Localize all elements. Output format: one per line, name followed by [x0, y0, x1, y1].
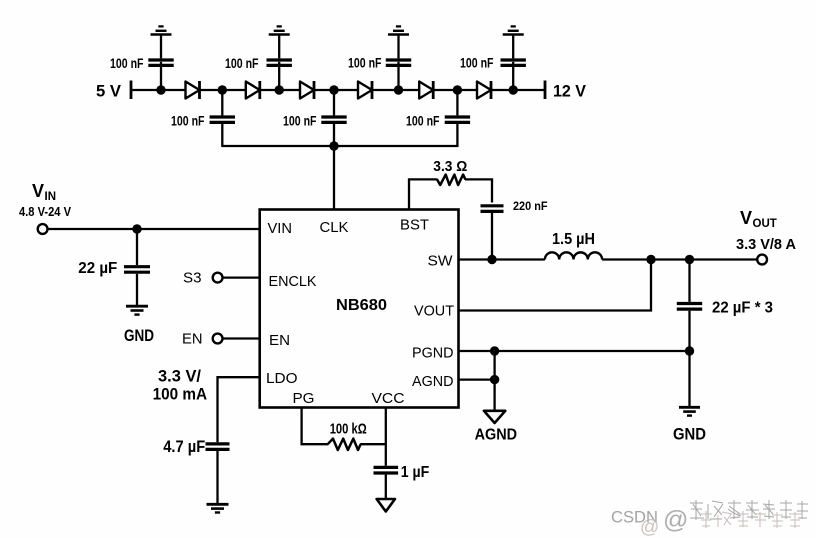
label C3 100 nF — [348, 56, 382, 71]
wire CLK pin — [333, 146, 335, 210]
svg-text:22 µF: 22 µF — [78, 260, 117, 277]
label AGND — [475, 426, 517, 443]
terminal 12V tick — [544, 81, 547, 100]
pin label BST — [400, 217, 429, 234]
label EN net — [182, 330, 203, 347]
label 22 uF * 3 — [712, 300, 773, 317]
wire PGND pin — [459, 350, 690, 352]
svg-text:1 µF: 1 µF — [401, 464, 430, 481]
svg-text:GND: GND — [124, 326, 154, 345]
wire EN pin — [223, 337, 260, 339]
label NB680 — [336, 297, 387, 314]
label 1.5 uH — [552, 231, 595, 248]
ground input cap — [126, 306, 148, 314]
svg-text:100 nF: 100 nF — [283, 113, 317, 128]
watermark glyphs row2 — [700, 511, 801, 528]
ground flipped C1 — [151, 26, 172, 34]
ground flipped C4 — [503, 26, 524, 34]
svg-text:PGND: PGND — [412, 345, 454, 362]
node J5 — [394, 85, 403, 94]
svg-text:CLK: CLK — [320, 219, 349, 236]
svg-text:S3: S3 — [183, 269, 202, 286]
resistor 100k — [328, 439, 361, 450]
svg-text:3.3 Ω: 3.3 Ω — [433, 159, 467, 175]
svg-text:VOUT: VOUT — [414, 303, 454, 320]
label 12 V — [553, 82, 587, 101]
diode D3 — [300, 81, 314, 99]
wire AGND pin — [459, 378, 495, 380]
node J7 — [509, 85, 518, 94]
svg-text:1.5 µH: 1.5 µH — [552, 231, 595, 248]
node output cap bottom — [685, 346, 694, 355]
node SW BST — [487, 255, 496, 264]
resistor 3.3 ohm — [437, 175, 465, 185]
label C1 100 nF — [110, 56, 144, 71]
label GND right — [673, 425, 706, 444]
capacitor C7 100nF bottom — [445, 90, 470, 147]
label 1 uF — [401, 464, 430, 481]
svg-text:@: @ — [663, 506, 688, 534]
label 3.3 ohm — [433, 159, 467, 175]
svg-text:100 nF: 100 nF — [460, 56, 494, 71]
label VIN net — [32, 181, 56, 203]
ground flipped C2 — [269, 26, 290, 34]
label S3 — [183, 269, 202, 286]
ground output — [679, 407, 700, 415]
ground VCC triangle — [377, 499, 395, 512]
node J4 — [329, 85, 338, 94]
svg-text:V: V — [32, 181, 44, 201]
label 3.3 V-8 A — [736, 236, 796, 253]
label C2 100 nF — [225, 56, 259, 71]
pin label AGND — [412, 373, 454, 390]
node rail CLK — [329, 141, 338, 150]
wire bottom rail — [222, 145, 457, 147]
diode D4 — [358, 81, 372, 99]
label 3.3V 100mA — [153, 366, 208, 403]
terminal S3 circle — [213, 273, 223, 283]
pin label LDO — [266, 370, 298, 387]
label 5 V — [96, 82, 122, 101]
wire output cap to ground — [688, 351, 690, 406]
node VOUT fb — [646, 255, 655, 264]
svg-text:BST: BST — [400, 217, 429, 234]
ground flipped C3 — [388, 26, 409, 34]
node J6 — [453, 85, 462, 94]
capacitor C2 100nF top — [267, 35, 292, 91]
svg-text:ENCLK: ENCLK — [269, 273, 317, 290]
node output cap top — [685, 255, 694, 264]
svg-text:IN: IN — [45, 191, 57, 203]
svg-text:100 mA: 100 mA — [153, 385, 208, 404]
pin label VOUT — [414, 303, 454, 320]
pin label EN — [269, 332, 290, 349]
svg-text:V: V — [740, 208, 752, 228]
svg-text:AGND: AGND — [475, 426, 517, 443]
svg-text:NB680: NB680 — [336, 297, 387, 314]
pin label PGND — [412, 345, 454, 362]
ground AGND triangle — [484, 411, 505, 423]
label C5 100 nF — [171, 113, 205, 128]
svg-text:VIN: VIN — [268, 220, 293, 237]
node J3 — [275, 85, 284, 94]
node VIN cap — [132, 224, 141, 233]
capacitor 22uF input — [124, 229, 150, 305]
wire resistor to cap — [465, 179, 492, 202]
wire 5V rail — [131, 89, 545, 91]
wire VOUT feedback — [459, 260, 652, 311]
wire resistor to VCC — [360, 443, 386, 445]
terminal EN circle — [213, 334, 223, 344]
node J1 — [156, 85, 165, 94]
svg-text:22 µF * 3: 22 µF * 3 — [712, 300, 773, 317]
ground LDO cap — [207, 504, 229, 512]
svg-text:EN: EN — [269, 332, 290, 349]
pin label PG — [293, 390, 315, 407]
svg-text:3.3 V/8 A: 3.3 V/8 A — [736, 236, 796, 253]
op-amp U1 NB680 body — [260, 210, 459, 408]
diode D6 — [477, 81, 491, 99]
svg-text:4.8 V-24 V: 4.8 V-24 V — [19, 204, 71, 219]
watermark glyphs row1 — [690, 500, 808, 520]
wire VCC pin — [385, 408, 387, 466]
capacitor 1uF VCC — [374, 467, 399, 498]
label C4 100 nF — [460, 56, 494, 71]
terminal 5V tick — [130, 81, 133, 100]
svg-text:3.3 V/: 3.3 V/ — [158, 366, 201, 385]
wire ENCLK pin — [223, 276, 260, 278]
svg-text:100 nF: 100 nF — [171, 113, 205, 128]
svg-text:LDO: LDO — [266, 370, 298, 387]
capacitor C1 100nF top — [148, 35, 173, 91]
wire LDO pin — [218, 377, 260, 442]
label C6 100 nF — [283, 113, 317, 128]
capacitor 4.7uF LDO — [206, 444, 230, 503]
wire BST loop — [409, 179, 438, 209]
svg-text:12 V: 12 V — [553, 82, 587, 101]
capacitor C4 100nF top — [501, 35, 526, 91]
svg-text:100 nF: 100 nF — [348, 56, 382, 71]
watermark CSDN text — [611, 506, 688, 538]
inductor 1.5uH — [545, 252, 602, 259]
pin label VCC — [372, 390, 405, 407]
node AGND — [490, 375, 499, 384]
node J2 — [218, 85, 227, 94]
svg-text:EN: EN — [182, 330, 203, 347]
capacitor 220nF BST — [481, 206, 504, 260]
svg-text:AGND: AGND — [412, 373, 454, 390]
capacitor C6 100nF bottom — [321, 90, 346, 147]
svg-text:4.7 µF: 4.7 µF — [163, 437, 205, 456]
label GND left — [124, 326, 154, 345]
label 100 kohm — [330, 421, 367, 438]
terminal VIN circle — [38, 224, 48, 234]
svg-text:220 nF: 220 nF — [513, 199, 548, 213]
svg-text:5 V: 5 V — [96, 82, 122, 101]
label 4.8 V-24 V — [19, 204, 71, 219]
svg-text:OUT: OUT — [753, 218, 777, 230]
svg-text:100 kΩ: 100 kΩ — [330, 421, 367, 438]
svg-text:SW: SW — [428, 253, 454, 270]
wire SW out — [602, 258, 757, 260]
wire SW pin — [459, 258, 545, 260]
label VOUT net — [740, 208, 777, 230]
wire VIN — [48, 228, 260, 230]
svg-text:VCC: VCC — [372, 390, 405, 407]
pin label ENCLK — [269, 273, 317, 290]
svg-text:100 nF: 100 nF — [406, 113, 440, 128]
terminal VOUT circle — [757, 255, 767, 265]
node PGND AGND — [490, 346, 499, 355]
capacitor 22uF x3 output — [677, 260, 702, 352]
svg-text:100 nF: 100 nF — [225, 56, 259, 71]
label 22 uF — [78, 260, 117, 277]
svg-text:100 nF: 100 nF — [110, 56, 144, 71]
diode D2 — [246, 81, 260, 99]
label C7 100 nF — [406, 113, 440, 128]
pin label SW — [428, 253, 454, 270]
pin label CLK — [320, 219, 349, 236]
label 220 nF — [513, 199, 548, 213]
diode D1 — [186, 81, 200, 99]
svg-text:GND: GND — [673, 425, 706, 444]
svg-text:@: @ — [640, 517, 659, 538]
svg-text:PG: PG — [293, 390, 315, 407]
wire PG pin — [302, 408, 329, 445]
capacitor C5 100nF bottom — [210, 90, 235, 147]
pin label VIN — [268, 220, 293, 237]
wire AGND down — [493, 351, 495, 410]
diode D5 — [419, 81, 433, 99]
label 4.7 uF — [163, 437, 205, 456]
capacitor C3 100nF top — [386, 35, 411, 91]
